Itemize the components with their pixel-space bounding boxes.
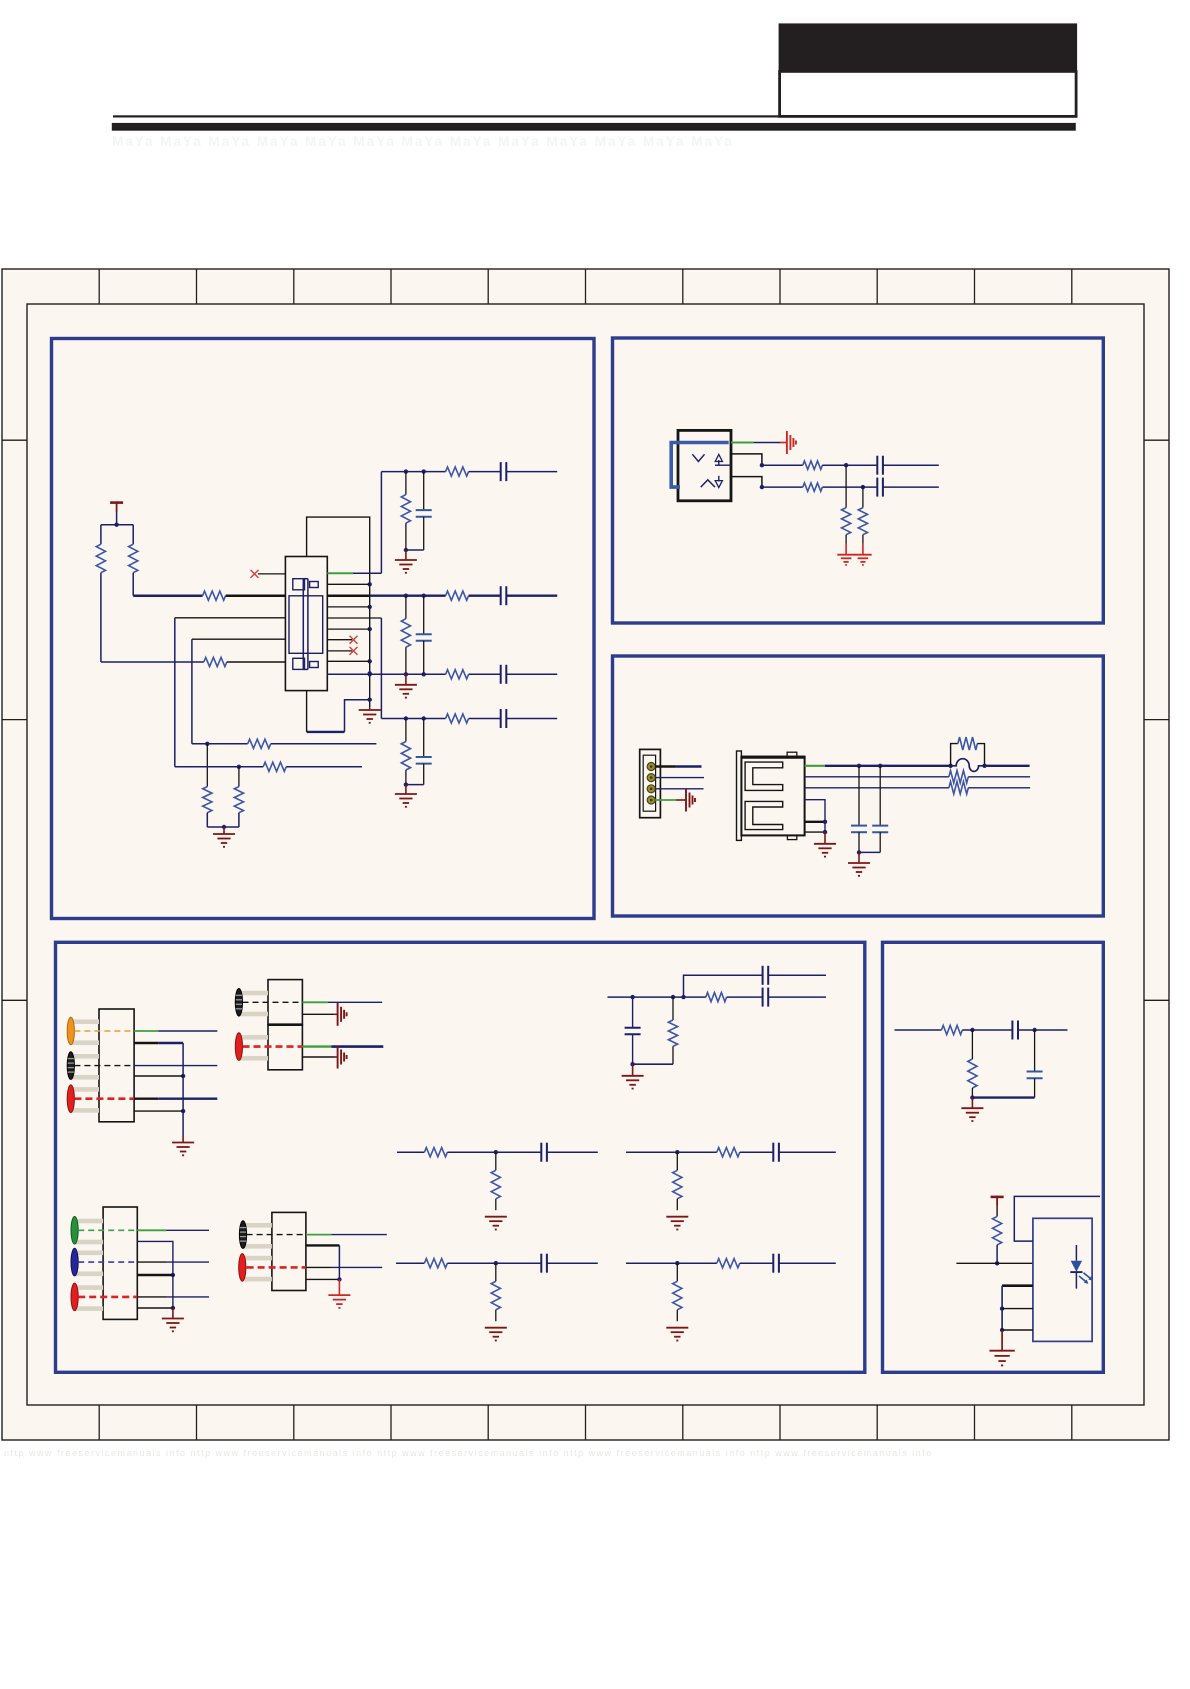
capacitor C14: [762, 966, 764, 985]
header pin4 wire: [655, 799, 676, 801]
wire: [1001, 1330, 1003, 1351]
capacitor C15: [762, 988, 764, 1007]
wire: [971, 1098, 973, 1109]
series capacitor: [500, 709, 502, 728]
tuner U1 outline: [285, 557, 327, 691]
wire: [137, 1296, 166, 1298]
shunt resistor: [401, 495, 410, 523]
pin stub nc right 1: [327, 639, 352, 641]
ground GA4: [395, 684, 417, 686]
series capacitor: [540, 1143, 542, 1162]
series resistor: [446, 714, 469, 723]
VBUS wire: [825, 765, 951, 767]
wire: [423, 641, 425, 675]
wire: [381, 718, 445, 720]
wire: [206, 744, 208, 787]
shunt resistor: [676, 1263, 678, 1281]
wire: [137, 1261, 166, 1263]
wire upper branch: [684, 975, 763, 997]
ground GD1: [172, 1142, 194, 1144]
header J2 inner: [643, 755, 655, 811]
wire: [996, 1206, 998, 1217]
header thin rule: [113, 115, 1077, 117]
resistor R17: [706, 993, 727, 1002]
wire: [740, 1151, 774, 1153]
USB jack J3 tab top: [787, 752, 797, 756]
node junction: [675, 1261, 679, 1265]
series resistor: [446, 467, 469, 476]
USB jack J3 contact lower: [745, 801, 783, 829]
wire: [547, 1262, 598, 1264]
wire: [447, 1262, 541, 1264]
resistor R4: [204, 657, 227, 666]
title block black banner: [779, 23, 1078, 71]
wire RF main: [133, 594, 202, 597]
wire: [100, 525, 102, 545]
wire: [306, 1266, 331, 1268]
dashed audioL wire: [74, 1065, 134, 1067]
connector J6 outline: [268, 1025, 302, 1070]
wire: [633, 1063, 673, 1065]
wire: [302, 1001, 327, 1003]
node junction E6: [1000, 1328, 1004, 1332]
ground GD3: [162, 1318, 184, 1320]
header J2 pin 3: [647, 785, 655, 793]
series resistor: [446, 591, 469, 600]
resistor R10: [803, 461, 823, 469]
wire: [895, 1029, 942, 1031]
node junction: [404, 594, 408, 598]
node junction A1: [114, 523, 118, 527]
shield wire 2: [805, 821, 825, 823]
pin stub nc left: [258, 573, 285, 575]
wire: [779, 1151, 836, 1153]
wire: [406, 784, 424, 786]
shunt capacitor: [416, 633, 432, 635]
sheet inner frame: [27, 304, 1144, 1405]
node junction B4: [861, 485, 865, 489]
header J2 pin 4: [647, 796, 655, 804]
header pin3 wire: [655, 788, 703, 790]
wire: [1002, 1308, 1033, 1310]
wire: [762, 464, 803, 466]
ground GA3: [395, 559, 417, 561]
node junction C2: [948, 764, 952, 768]
sheet outer frame: [2, 269, 1169, 1440]
resistor R13: [858, 508, 867, 535]
dashed wire: [243, 1001, 303, 1003]
wire: [423, 764, 425, 785]
series resistor: [446, 670, 469, 679]
wire: [956, 1262, 1033, 1264]
USB jack J3 mounting plate: [737, 751, 742, 840]
chassis earth E1: [786, 431, 788, 454]
connector J4 outline: [99, 1009, 134, 1122]
node junction: [404, 469, 408, 473]
shield wire: [805, 800, 825, 832]
VBUS wire out: [985, 765, 1030, 767]
wire: [306, 1244, 340, 1246]
wire: [405, 596, 407, 619]
node junction D5: [681, 995, 685, 999]
wire: [101, 524, 133, 526]
wire: [405, 719, 407, 742]
series capacitor: [772, 1254, 774, 1273]
wire: [423, 517, 425, 550]
C pin wire: [731, 477, 762, 488]
LED D1 emission arrows: [1079, 1276, 1088, 1283]
wire: [397, 1151, 424, 1153]
wire: [1001, 1286, 1003, 1330]
wire: [405, 472, 407, 495]
frame tick marks: [2, 269, 1169, 1440]
wire: [469, 471, 501, 473]
dashed video wire: [74, 1030, 134, 1032]
node junction B3: [760, 485, 764, 489]
wire: [174, 618, 176, 767]
ground GB2: [854, 554, 872, 556]
shunt capacitor C21: [1034, 1030, 1036, 1072]
RCA jack J5 (black): [239, 991, 268, 996]
node junction A4: [222, 825, 226, 829]
wire: [845, 465, 847, 507]
no-connect X2: [350, 636, 358, 644]
ground GE1: [961, 1107, 983, 1109]
wire: [406, 549, 424, 551]
resistor R20: [942, 1025, 963, 1034]
wire: [182, 1111, 184, 1136]
node junction: [404, 782, 408, 786]
wire: [1002, 1284, 1033, 1287]
node junction B2: [844, 463, 848, 467]
dashed wire: [247, 1266, 306, 1269]
wire: [822, 464, 877, 466]
wire: [134, 1110, 183, 1112]
Y pin wire: [731, 454, 762, 465]
wire: [822, 486, 877, 488]
node junction D1: [181, 1074, 185, 1078]
wire: [469, 673, 501, 675]
dashed wire: [247, 1234, 306, 1236]
block frame box E: [883, 942, 1104, 1372]
wire: [405, 523, 407, 550]
wire: [116, 512, 118, 525]
ground GA2: [369, 708, 371, 710]
node junction E2: [1032, 1028, 1036, 1032]
ground GC1: [814, 843, 836, 845]
power flag VCC A1: [110, 501, 123, 504]
wire: [447, 1151, 541, 1153]
wire: [286, 766, 362, 768]
wire: [684, 996, 706, 998]
node junction: [494, 1150, 498, 1154]
D+ wire: [805, 787, 949, 789]
wire: [740, 1262, 774, 1264]
node junction C1: [857, 764, 861, 768]
connector J7 outline: [103, 1207, 137, 1319]
wire: [405, 647, 407, 674]
resistor R2: [129, 544, 138, 573]
USB jack J3 tab bottom: [787, 835, 796, 839]
USB jack J3 contact upper: [745, 762, 783, 790]
connector J5 outline: [268, 980, 302, 1025]
wire: [405, 770, 407, 785]
node junction D8: [171, 1306, 175, 1310]
block frame box B: [613, 338, 1104, 623]
RCA jack J7-Pr (red): [75, 1285, 104, 1290]
resistor R5: [248, 739, 271, 748]
ground bus wire: [137, 1241, 173, 1308]
wire: [405, 550, 407, 560]
wire: [506, 595, 557, 597]
block frame box D: [56, 942, 865, 1372]
wire: [968, 776, 1030, 778]
wire: [626, 1151, 717, 1153]
RCA jack J4-audioR (red): [71, 1087, 99, 1092]
shunt resistor: [401, 619, 410, 648]
node junction: [404, 716, 408, 720]
block frame box C: [613, 656, 1104, 916]
resistor R14 parallel: [951, 744, 958, 766]
resistor R15: [949, 771, 968, 783]
RCA jack J7-Pb (blue): [75, 1251, 104, 1256]
resistor R22: [993, 1216, 1002, 1245]
decoupling cap C12: [858, 766, 860, 826]
node junction C4: [823, 830, 827, 834]
node junction A3: [237, 765, 241, 769]
wire: [191, 639, 193, 744]
wire: [227, 661, 286, 663]
shunt resistor: [495, 1263, 497, 1281]
wire: [405, 785, 407, 794]
wire: [271, 743, 377, 745]
title block white panel: [780, 71, 1077, 116]
IR receiver U2 outline: [1033, 1218, 1092, 1341]
wire: [626, 1262, 717, 1264]
ground GB1: [837, 554, 855, 556]
tuner top loop wire: [307, 517, 370, 708]
wire: [223, 827, 225, 834]
wire: [207, 826, 239, 828]
capacitor C10: [876, 456, 878, 475]
S-video glyph arrow up: [718, 460, 720, 466]
tuner bottom return wire: [345, 700, 370, 732]
pin wires right side: [327, 583, 369, 585]
ground: [666, 1327, 688, 1329]
wire: [1002, 1329, 1033, 1331]
header thick rule: [112, 123, 1076, 131]
wire: [101, 661, 204, 663]
wire: [845, 535, 847, 544]
AGC green wire: [327, 572, 353, 574]
wire: [226, 594, 286, 597]
ferrite bead L1: [951, 759, 985, 772]
antenna row 1 wire: [192, 743, 248, 745]
wire: [302, 1056, 334, 1058]
shunt resistor R18: [672, 997, 674, 1020]
chassis earth E2: [685, 789, 687, 812]
wire: [132, 573, 134, 596]
wire: [302, 1045, 331, 1047]
ground: [485, 1327, 507, 1329]
header J2 pin 1: [647, 763, 655, 771]
wire: [172, 1308, 174, 1319]
ground GD2: [622, 1075, 644, 1077]
node junction D9: [337, 1277, 341, 1281]
dashed wire: [78, 1261, 137, 1263]
tuner U1 notch top-left: [293, 579, 305, 590]
node junction E4: [995, 1261, 999, 1265]
wire: [768, 996, 826, 998]
decoupling cap C13: [879, 766, 881, 826]
series capacitor: [500, 586, 502, 605]
pin wire right to row4: [327, 617, 381, 619]
resistor R7: [263, 762, 286, 771]
node junction C3: [823, 820, 827, 824]
header pin1 wire: [655, 765, 675, 767]
block frame box A: [52, 339, 595, 919]
ground GC2: [848, 862, 870, 864]
D- wire: [805, 776, 949, 778]
shunt resistor: [676, 1152, 678, 1170]
wire: [632, 1064, 634, 1076]
connector J8 outline: [272, 1212, 306, 1290]
wire: [338, 1279, 340, 1295]
shield wire 3: [805, 831, 825, 833]
node junction: [494, 1261, 498, 1265]
node junction: [675, 1150, 679, 1154]
wire: [858, 852, 860, 863]
dashed wire: [78, 1296, 137, 1299]
node junction D3: [630, 995, 634, 999]
wire: [134, 1097, 158, 1099]
RCA jack J6 (red): [239, 1035, 268, 1040]
svg-text:nttp www freeservicemanuals in: nttp www freeservicemanuals info nttp ww…: [4, 1448, 933, 1458]
series capacitor: [500, 462, 502, 481]
node junction C5: [857, 850, 861, 854]
dashed wire: [243, 1045, 303, 1048]
wire: [506, 471, 557, 473]
shunt capacitor C16: [632, 997, 634, 1028]
wire: [423, 472, 425, 511]
S-video glyph Y: [692, 454, 704, 461]
power flag VCC E: [991, 1196, 1004, 1199]
shunt resistor: [495, 1152, 497, 1170]
pin bus junction dots: [368, 582, 372, 586]
wire: [423, 596, 425, 635]
header J2 outline: [640, 749, 661, 817]
shunt resistor: [401, 742, 410, 771]
node junction D4: [671, 995, 675, 999]
ground GE2: [989, 1350, 1014, 1352]
shunt capacitor: [416, 509, 432, 511]
ground: [666, 1216, 688, 1218]
resistor R1: [96, 544, 105, 573]
LED D1 body: [1075, 1245, 1077, 1261]
wire: [762, 486, 803, 488]
wire: [206, 813, 208, 827]
header pin2 wire: [655, 777, 704, 779]
wire: [972, 1096, 1034, 1098]
wire: [968, 787, 1030, 789]
wire: [824, 832, 826, 844]
tuner U1 notch bottom-left: [293, 658, 305, 669]
wire: [137, 1229, 166, 1231]
wire: [962, 1029, 1012, 1031]
wire: [506, 718, 557, 720]
wire: [883, 486, 939, 488]
RCA jack J7-Y (green): [75, 1219, 104, 1224]
wire: [862, 487, 864, 508]
ground GD4: [328, 1294, 350, 1296]
wire: [134, 1065, 217, 1067]
wire: [100, 573, 102, 662]
wire: [302, 1013, 334, 1015]
pin wire left 2: [175, 617, 286, 619]
RCA jack J8 (black): [243, 1223, 272, 1228]
ground bus wire: [134, 1042, 158, 1044]
header J2 pin 2: [647, 774, 655, 782]
series capacitor: [500, 665, 502, 684]
node junction E3: [970, 1095, 974, 1099]
no-connect X3: [350, 647, 358, 655]
shunt capacitor: [416, 756, 432, 758]
series resistor: [424, 1259, 447, 1268]
tuner U1 tab bottom-right: [310, 662, 319, 668]
tuner U1 slot bars: [302, 579, 304, 670]
RCA jack J4-audioL (black): [71, 1054, 99, 1059]
S-video jack J1 blue shield: [671, 443, 729, 488]
RCA jack J8 (red): [242, 1256, 272, 1261]
wire: [779, 1262, 836, 1264]
wire: [306, 1234, 331, 1236]
wire: [132, 525, 134, 545]
chassis earth E3: [337, 1003, 339, 1026]
S-video jack J1 shell: [678, 430, 731, 500]
shield green wire: [731, 442, 754, 444]
pin wire left 3: [192, 638, 286, 640]
IF output row 3: [327, 673, 445, 675]
ground: [485, 1216, 507, 1218]
capacitor C20: [1011, 1021, 1013, 1040]
wire: [1018, 1029, 1068, 1031]
tuner U1 tab top-right: [310, 582, 319, 588]
series capacitor: [772, 1143, 774, 1162]
capacitor C11: [876, 478, 878, 497]
svg-text:MaYa MaYa MaYa MaYa MaYa: MaYa MaYa MaYa MaYa MaYa MaYa MaYa MaYa …: [112, 134, 734, 149]
wire: [306, 1278, 340, 1280]
IF output row 4: [380, 618, 382, 719]
resistor R16: [949, 782, 968, 794]
wire: [469, 595, 501, 597]
dashed audioR wire: [74, 1097, 134, 1100]
series resistor: [717, 1259, 740, 1268]
shunt resistor R21: [971, 1030, 973, 1059]
S-video glyph arrow down: [718, 476, 720, 482]
antenna row 2 wire: [175, 766, 263, 768]
wire: [469, 718, 501, 720]
tuner U1 inner socket: [289, 596, 323, 654]
wire top loop: [1014, 1196, 1100, 1241]
wire: [768, 974, 826, 976]
wire: [134, 1030, 158, 1032]
series resistor: [717, 1148, 740, 1157]
wire: [423, 719, 425, 758]
node junction D7: [171, 1273, 175, 1277]
node junction E1: [970, 1028, 974, 1032]
no-connect X1: [251, 570, 259, 578]
resistor R6: [203, 787, 212, 813]
